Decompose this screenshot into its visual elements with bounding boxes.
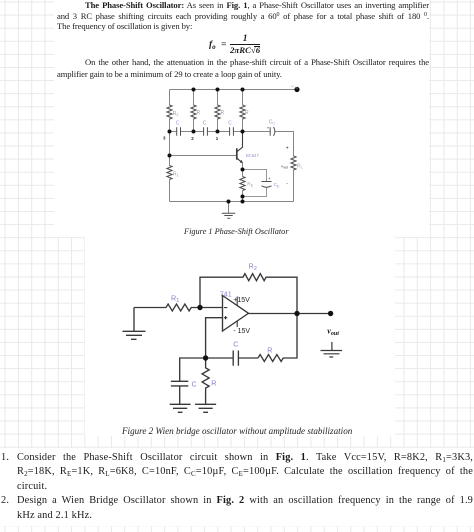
svg-text:C: C [233,340,238,349]
svg-text:R1: R1 [171,293,179,304]
svg-text:+15V: +15V [233,297,250,304]
svg-text:+: + [268,176,271,181]
svg-text:RL: RL [297,164,303,170]
svg-text:2: 2 [191,136,194,141]
svg-text:R: R [221,110,225,116]
svg-text:CE: CE [274,182,280,188]
svg-text:C: C [176,121,180,127]
svg-text:R: R [211,378,216,387]
svg-text:-: - [286,181,288,187]
svg-text:+: + [286,146,289,152]
svg-text:vout: vout [327,327,339,338]
svg-text:C: C [192,379,197,388]
svg-text:R2: R2 [173,111,179,117]
svg-text:+: + [267,125,270,130]
svg-text:R: R [245,110,249,116]
svg-text:C: C [228,121,232,127]
svg-text:R1: R1 [173,172,179,178]
svg-text:C: C [203,121,207,127]
svg-text:R2: R2 [249,261,257,272]
svg-text:vout: vout [281,164,289,170]
svg-text:RE: RE [247,182,253,188]
svg-text:R: R [197,110,201,116]
svg-text:741: 741 [220,290,232,299]
svg-text:BC547: BC547 [246,153,259,158]
svg-text:3: 3 [163,135,166,140]
svg-text:CC: CC [269,120,276,126]
svg-text:vCC: vCC [291,84,299,90]
svg-text:R: R [267,345,272,354]
svg-text:- 15V: - 15V [233,328,250,335]
svg-text:1: 1 [216,136,219,141]
